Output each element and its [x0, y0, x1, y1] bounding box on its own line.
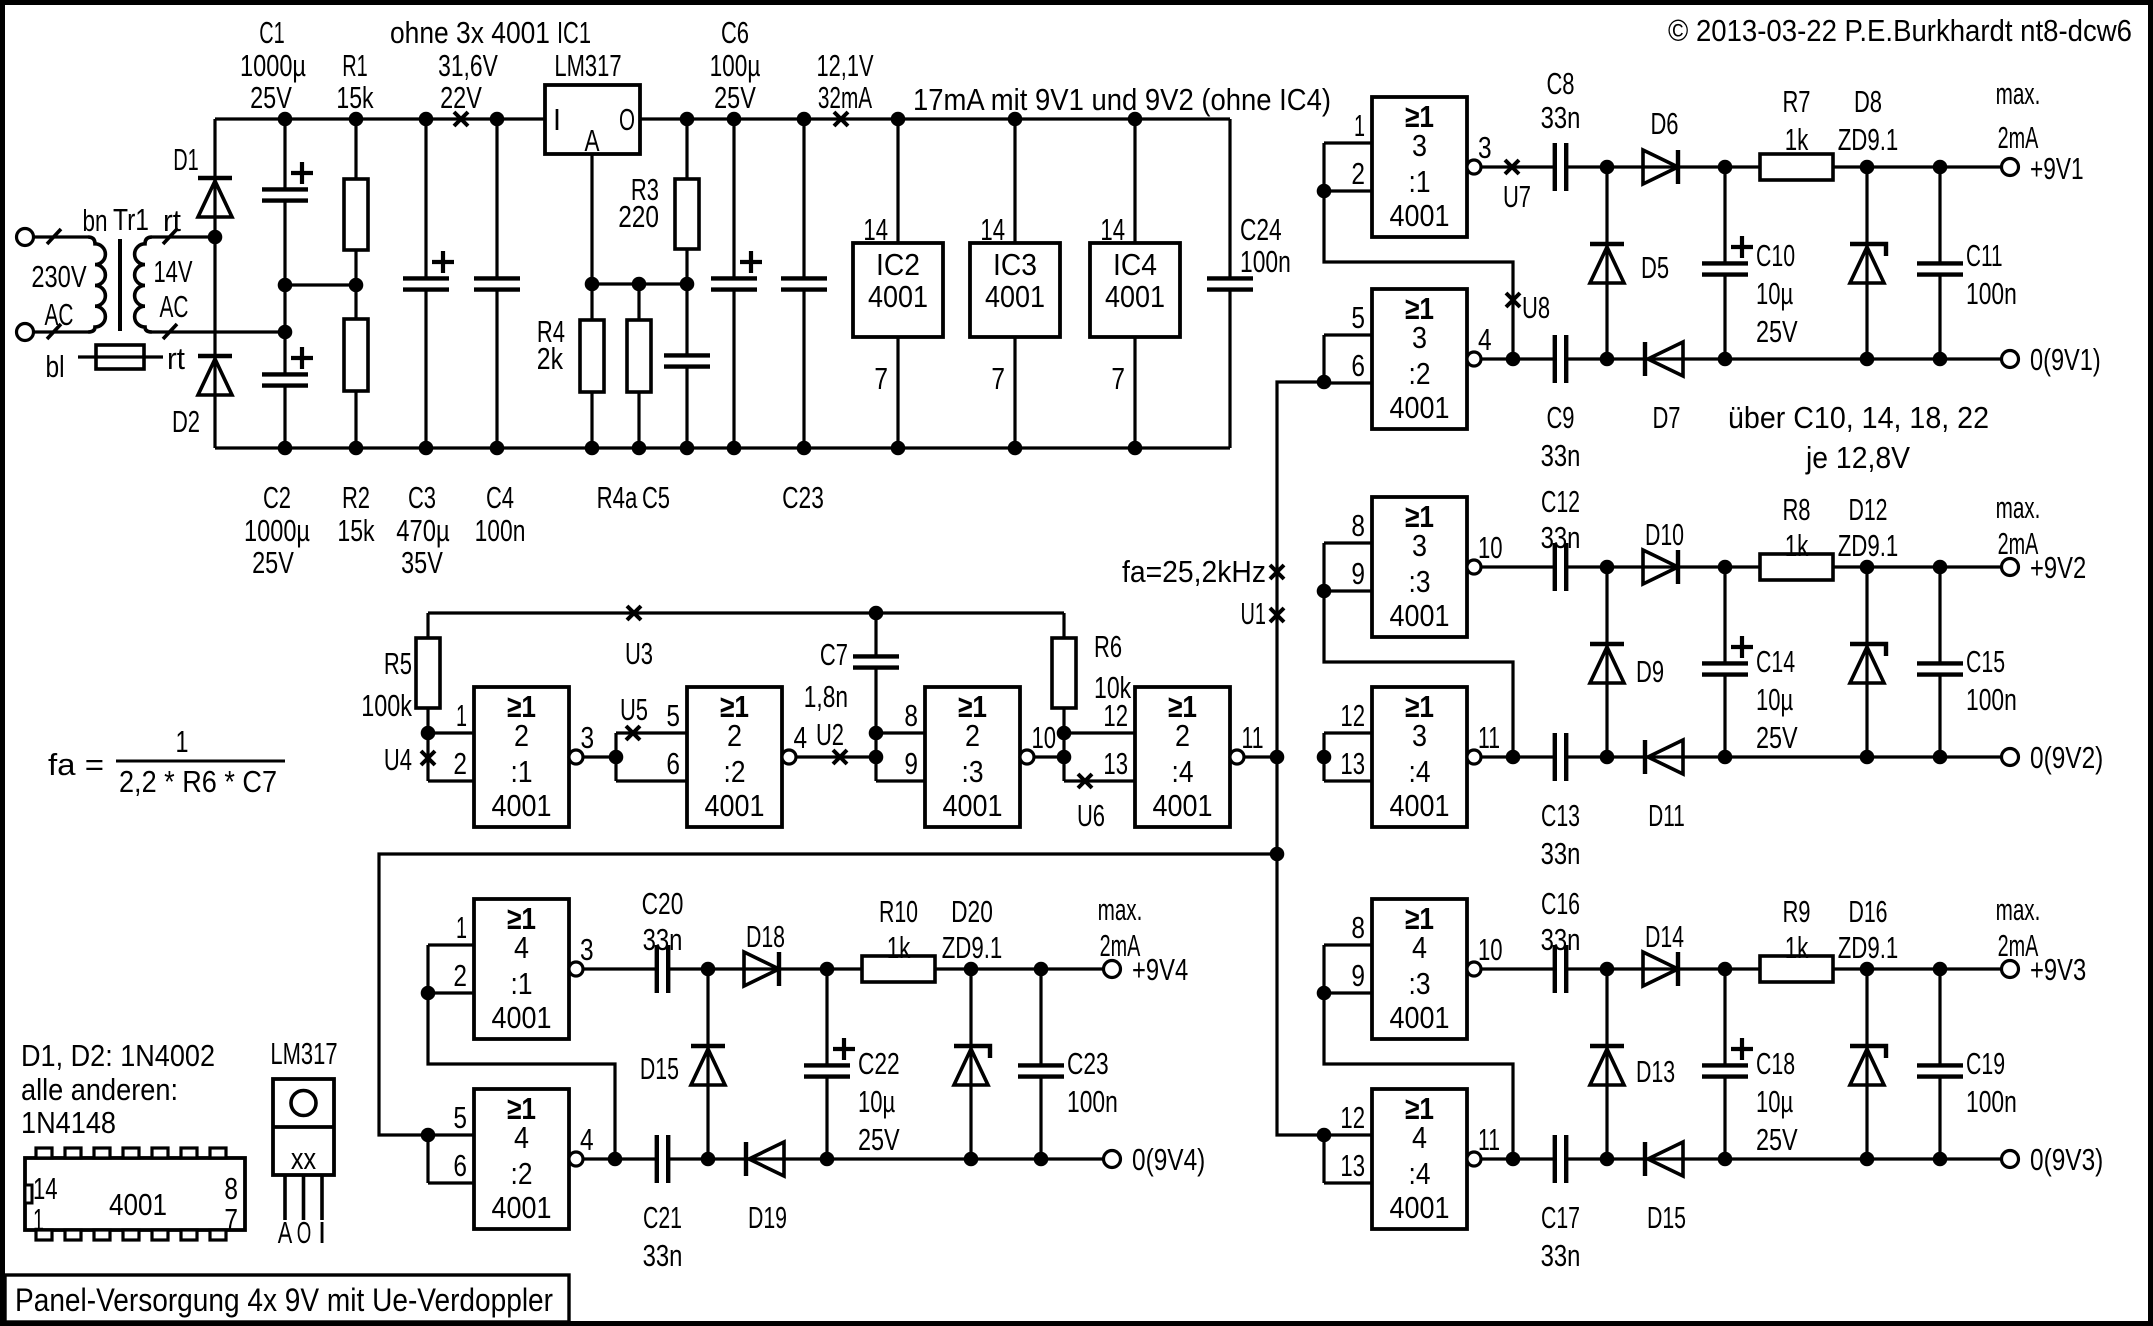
capacitor C20 pump top [655, 967, 658, 970]
IC power block IC4 [1133, 119, 1136, 243]
terminal 0 output [1104, 1151, 1121, 1168]
resistor R4 [590, 284, 593, 320]
svg-text:1k: 1k [1785, 122, 1809, 157]
svg-text:5: 5 [453, 1100, 467, 1135]
svg-text::4: :4 [1172, 754, 1194, 789]
wire 3:2 output rail [1481, 357, 1555, 360]
svg-text:2: 2 [727, 718, 742, 753]
gate U3:3 4001 [1372, 497, 1467, 637]
measurement point U5 [626, 726, 640, 740]
svg-text:+9V2: +9V2 [2030, 550, 2086, 585]
svg-text:32mA: 32mA [818, 80, 873, 115]
svg-text:10µ: 10µ [1756, 1084, 1793, 1119]
capacitor C23 output [1039, 969, 1042, 1065]
svg-text:1000µ: 1000µ [240, 48, 306, 83]
zener diode D12 [1865, 567, 1868, 757]
wire 4:2 output rail [583, 1157, 657, 1160]
svg-text:1: 1 [1354, 108, 1365, 143]
svg-text:U4: U4 [384, 742, 412, 777]
svg-text:max.: max. [1996, 892, 2041, 927]
svg-text:R6: R6 [1094, 629, 1122, 664]
measurement point 22V [454, 112, 468, 126]
svg-text:100n: 100n [1966, 276, 2017, 311]
svg-text:6: 6 [453, 1148, 467, 1183]
measurement point U7 [1505, 160, 1519, 174]
slash mark rt top [163, 229, 177, 244]
svg-text:4001: 4001 [1390, 198, 1450, 233]
zener diode D16 [1865, 969, 1868, 1159]
svg-text:25V: 25V [1756, 720, 1798, 755]
svg-text:4001: 4001 [1153, 788, 1213, 823]
svg-text:12: 12 [1340, 698, 1365, 733]
svg-text:D1, D2: 1N4002: D1, D2: 1N4002 [21, 1038, 215, 1073]
svg-text:xx: xx [291, 1141, 317, 1176]
node tap top [1317, 986, 1332, 1001]
diode D6 series top [1607, 165, 1725, 168]
svg-text:D9: D9 [1636, 654, 1664, 689]
terminal bn input [17, 229, 34, 246]
svg-text:C16: C16 [1541, 886, 1580, 921]
svg-text:1: 1 [456, 698, 467, 733]
node trunk top to 3:2 bracket [1317, 375, 1332, 390]
svg-text:AC: AC [45, 297, 74, 332]
measurement point U8 [1506, 293, 1520, 307]
svg-text:4001: 4001 [492, 788, 552, 823]
svg-text:bl: bl [45, 349, 64, 384]
svg-text:7: 7 [874, 361, 888, 396]
svg-text:5: 5 [1351, 300, 1365, 335]
svg-text:U2: U2 [816, 717, 844, 752]
svg-text:C7: C7 [820, 637, 848, 672]
gate 2:1 input bracket [426, 733, 429, 781]
node tap top [1317, 584, 1332, 599]
svg-text:D19: D19 [748, 1200, 787, 1235]
terminal 0 output [2002, 1151, 2019, 1168]
svg-text:4: 4 [514, 930, 529, 965]
node gate 2:3 input [869, 750, 884, 765]
svg-text:33n: 33n [1541, 1238, 1581, 1273]
svg-text:14: 14 [980, 212, 1005, 247]
svg-text:C13: C13 [1541, 798, 1580, 833]
node C7 top [869, 606, 884, 621]
svg-text:fa =: fa = [48, 747, 104, 782]
wire tap 4:3 inputs from 4:4 output [1324, 945, 1513, 1159]
svg-text:C8: C8 [1546, 66, 1574, 101]
node trunk to 3:4 bracket [1317, 750, 1332, 765]
svg-text:D12: D12 [1848, 492, 1887, 527]
gate 3:2 input bracket [1322, 335, 1325, 383]
svg-text:6: 6 [1351, 348, 1365, 383]
capacitor C7 [874, 613, 877, 656]
svg-text:100µ: 100µ [710, 48, 761, 83]
svg-text:I: I [553, 102, 561, 137]
gate 4:3 input bracket [1324, 943, 1372, 946]
svg-text:470µ: 470µ [396, 513, 449, 548]
svg-text:D6: D6 [1650, 106, 1678, 141]
svg-text::3: :3 [1409, 966, 1431, 1001]
svg-text:alle anderen:: alle anderen: [21, 1072, 178, 1107]
gate U2:4 4001 [1135, 687, 1230, 827]
svg-text:4001: 4001 [868, 279, 928, 314]
gate 3:1 input bracket [1324, 141, 1372, 144]
svg-text:IC4: IC4 [1113, 247, 1157, 282]
diode D11 series bottom [1607, 755, 1725, 758]
node tap bottom [1506, 750, 1521, 765]
node gate 2:4 input [1057, 750, 1072, 765]
svg-text:+9V3: +9V3 [2030, 952, 2086, 987]
svg-text:I: I [318, 1215, 327, 1250]
svg-text:14: 14 [863, 212, 888, 247]
node pump bottom [1600, 352, 1615, 367]
wire bottom rail out [1725, 357, 2002, 360]
svg-text::3: :3 [962, 754, 984, 789]
capacitor C13 pump bottom [1553, 755, 1556, 758]
svg-text:4001: 4001 [1390, 390, 1450, 425]
svg-text:9: 9 [1351, 556, 1365, 591]
svg-text::2: :2 [511, 1156, 533, 1191]
svg-text:14: 14 [33, 1171, 58, 1206]
wire adjust rail [592, 282, 687, 285]
svg-text:C14: C14 [1756, 644, 1795, 679]
svg-text:über C10, 14, 18, 22: über C10, 14, 18, 22 [1728, 400, 1989, 435]
gate U2:1 4001 [474, 687, 569, 827]
node zener bottom [1860, 352, 1875, 367]
node zener bottom [1860, 1152, 1875, 1167]
resistor R9 output [1725, 967, 1760, 970]
node R1-R2 junction [349, 278, 364, 293]
node out cap top [1034, 962, 1049, 977]
svg-text:7: 7 [224, 1202, 238, 1237]
measurement point U4 [421, 751, 435, 765]
svg-text:ohne 3x 4001: ohne 3x 4001 [390, 15, 550, 50]
wire LM317 adjust pin [590, 154, 593, 284]
svg-text:C6: C6 [721, 15, 749, 50]
terminal 0 output [2002, 749, 2019, 766]
svg-text:C21: C21 [643, 1200, 682, 1235]
svg-text:33n: 33n [1541, 520, 1581, 555]
node out cap bottom [1933, 1152, 1948, 1167]
zener diode D8 [1865, 167, 1868, 359]
svg-text:D2: D2 [172, 404, 200, 439]
svg-text:2mA: 2mA [1998, 120, 2039, 155]
diode D1 [213, 119, 216, 237]
LM317 legs [283, 1175, 287, 1220]
svg-text:C20: C20 [642, 886, 684, 921]
capacitor C19 output [1938, 969, 1941, 1065]
svg-text:D5: D5 [1641, 250, 1669, 285]
wire secondary top to node [152, 235, 215, 238]
svg-text:10: 10 [1032, 720, 1057, 755]
gate U4:3 4001 [1372, 899, 1467, 1039]
svg-text:C5: C5 [642, 480, 670, 515]
svg-text:Tr1: Tr1 [113, 202, 149, 237]
terminal bl input [17, 324, 34, 341]
svg-text:C11: C11 [1966, 238, 2003, 273]
svg-text:rt: rt [163, 203, 181, 238]
svg-text:4001: 4001 [1390, 1190, 1450, 1225]
node trunk osc out [1270, 750, 1285, 765]
svg-text:15k: 15k [336, 80, 374, 115]
node transformer top junction [208, 230, 223, 245]
svg-text:C15: C15 [1966, 644, 2005, 679]
svg-text:10µ: 10µ [1756, 682, 1793, 717]
diode D19 series bottom [708, 1157, 827, 1160]
svg-text:4001: 4001 [1390, 788, 1450, 823]
wire gate 2:3 out [1035, 755, 1065, 758]
svg-text:33n: 33n [1541, 438, 1581, 473]
svg-text:D10: D10 [1645, 517, 1684, 552]
svg-text:C9: C9 [1546, 400, 1574, 435]
svg-text:2: 2 [1351, 156, 1365, 191]
svg-text:ZD9.1: ZD9.1 [1838, 122, 1899, 157]
wire bottom rail out [827, 1157, 1104, 1160]
svg-text:33n: 33n [643, 1238, 683, 1273]
measurement point 12,1V [834, 112, 848, 126]
svg-text:33n: 33n [1541, 100, 1581, 135]
diode D15 series bottom [1607, 1157, 1725, 1160]
svg-text::1: :1 [1409, 164, 1431, 199]
svg-text:R10: R10 [879, 894, 918, 929]
node transformer return [278, 325, 293, 340]
gate 3:4 input bracket [1322, 733, 1325, 781]
node pump top [1600, 560, 1615, 575]
node zener top [1860, 560, 1875, 575]
svg-text:IC3: IC3 [993, 247, 1037, 282]
wire bottom rail out [1725, 1157, 2002, 1160]
node zener top [964, 962, 979, 977]
wire bl to primary [34, 330, 89, 333]
capacitor C4 [495, 119, 498, 278]
svg-text:C17: C17 [1541, 1200, 1580, 1235]
svg-text:4: 4 [1412, 930, 1427, 965]
svg-text:C10: C10 [1756, 238, 1795, 273]
diode D13 clamp [1605, 969, 1608, 1159]
capacitor C12 pump top [1553, 565, 1556, 568]
svg-text:8: 8 [224, 1171, 238, 1206]
gate U3:2 4001 [1372, 289, 1467, 429]
node tap top [1317, 184, 1332, 199]
terminal 0 output [2002, 351, 2019, 368]
capacitor C17 pump bottom [1553, 1157, 1556, 1160]
node pump bottom [701, 1152, 716, 1167]
wire secondary bottom to C-midpoint [152, 330, 285, 333]
svg-text:25V: 25V [858, 1122, 900, 1157]
node zener bottom [964, 1152, 979, 1167]
svg-text:230V: 230V [31, 259, 87, 294]
svg-text:D16: D16 [1848, 894, 1887, 929]
wire gate 2:1 out [584, 755, 617, 758]
node zener top [1860, 160, 1875, 175]
node out cap top [1933, 962, 1948, 977]
node trunk to 4:4 bracket [1317, 1128, 1332, 1143]
svg-text:max.: max. [1996, 76, 2041, 111]
svg-text:C2: C2 [263, 480, 291, 515]
diode D14 series top [1607, 967, 1725, 970]
svg-text:13: 13 [1340, 746, 1365, 781]
capacitor C24 [1228, 119, 1231, 278]
wire bottom supply rail [215, 446, 1230, 449]
svg-text:max.: max. [1098, 892, 1143, 927]
svg-text:4001: 4001 [1390, 598, 1450, 633]
capacitor C22 reservoir [825, 969, 828, 1065]
svg-text:LM317: LM317 [270, 1036, 337, 1071]
node pump bottom [1600, 1152, 1615, 1167]
node branch to 4:2 bracket [421, 1128, 436, 1143]
node rectified [1718, 962, 1733, 977]
gate 2:3 input bracket [874, 733, 877, 781]
svg-text:+9V1: +9V1 [2030, 151, 2084, 186]
svg-text:7: 7 [991, 361, 1005, 396]
svg-text:2: 2 [453, 746, 467, 781]
svg-text:ZD9.1: ZD9.1 [1838, 528, 1899, 563]
svg-text:U5: U5 [620, 692, 648, 727]
gate U4:4 4001 [1372, 1089, 1467, 1229]
gate U2:3 4001 [925, 687, 1020, 827]
svg-text:R7: R7 [1782, 84, 1810, 119]
gate U3:4 4001 [1372, 687, 1467, 827]
svg-text:12: 12 [1340, 1100, 1365, 1135]
svg-text:25V: 25V [714, 80, 756, 115]
zener diode D20 [969, 969, 972, 1159]
svg-text:1k: 1k [1785, 528, 1809, 563]
capacitor C23 main [802, 119, 805, 278]
svg-text:2: 2 [965, 718, 980, 753]
svg-text:C23: C23 [1067, 1046, 1109, 1081]
svg-text:220: 220 [618, 199, 659, 234]
svg-text:1,8n: 1,8n [804, 679, 848, 714]
svg-text:3: 3 [581, 720, 595, 755]
svg-text:A: A [585, 123, 600, 158]
transformer Tr1 primary winding [88, 237, 105, 332]
wire 4:4 output rail [1481, 1157, 1555, 1160]
svg-text:O: O [619, 102, 635, 137]
node pump top [1600, 962, 1615, 977]
svg-text:2: 2 [514, 718, 529, 753]
fuse [78, 355, 163, 358]
svg-text:4001: 4001 [492, 1190, 552, 1225]
svg-text:AC: AC [160, 289, 189, 324]
svg-text:IC2: IC2 [876, 247, 920, 282]
wire 3:3 output to pump cap [1481, 565, 1555, 568]
wire bn to primary [34, 235, 89, 238]
svg-text:100n: 100n [1966, 1084, 2017, 1119]
svg-text:C24: C24 [1240, 212, 1282, 247]
measurement point U3 [627, 606, 641, 620]
terminal + output [1104, 961, 1121, 978]
capacitor C6 [732, 119, 735, 278]
svg-text:100n: 100n [475, 513, 526, 548]
capacitor C2 [283, 332, 286, 374]
svg-text:4001: 4001 [109, 1187, 167, 1222]
svg-text:D13: D13 [1636, 1054, 1675, 1089]
DIP-14 package 4001 [25, 1158, 245, 1230]
svg-text:4: 4 [1478, 322, 1492, 357]
node pump top [701, 962, 716, 977]
svg-text:U1: U1 [1241, 596, 1267, 631]
wire midpoint to R divider [285, 283, 356, 286]
svg-text:2,2 * R6 * C7: 2,2 * R6 * C7 [119, 764, 277, 799]
node R5 bottom [421, 726, 436, 741]
diode D10 series top [1607, 565, 1725, 568]
wire oscillator trunk [1277, 382, 1324, 1135]
diode D18 series top [708, 967, 827, 970]
svg-text:C18: C18 [1756, 1046, 1795, 1081]
resistor R7 output [1725, 165, 1760, 168]
svg-text:2: 2 [453, 958, 467, 993]
capacitor C10 reservoir [1723, 167, 1726, 263]
resistor R8 output [1725, 565, 1760, 568]
capacitor C9 pump bottom [1553, 357, 1556, 360]
svg-text:11: 11 [1478, 1122, 1500, 1157]
svg-text:25V: 25V [1756, 1122, 1798, 1157]
svg-text:fa=25,2kHz: fa=25,2kHz [1122, 554, 1266, 589]
node rectified [1718, 560, 1733, 575]
svg-text:1N4148: 1N4148 [21, 1105, 116, 1140]
wire 3:4 output rail [1481, 755, 1555, 758]
wire branch to 9V4 section [379, 854, 1277, 1135]
regulator IC1 LM317 [545, 85, 640, 154]
transformer Tr1 secondary winding [135, 237, 152, 332]
IC power block IC3 [1013, 119, 1016, 243]
svg-text:8: 8 [904, 698, 918, 733]
svg-text:1k: 1k [1785, 930, 1809, 965]
gate 2:4 input bracket [1062, 733, 1065, 781]
diode D7 series bottom [1607, 357, 1725, 360]
node gate 2:2 input [609, 750, 624, 765]
measurement point fa=25,2kHz [1270, 565, 1284, 579]
node tap bottom [1506, 352, 1521, 367]
diode D5 clamp [1605, 167, 1608, 359]
svg-text:IC1: IC1 [557, 15, 591, 50]
diode D15 clamp [706, 969, 709, 1159]
svg-text:R9: R9 [1782, 894, 1810, 929]
resistor R10 output [827, 967, 862, 970]
svg-text:0(9V3): 0(9V3) [2030, 1142, 2103, 1177]
svg-text:8: 8 [1351, 508, 1365, 543]
gate 4:2 input bracket [426, 1135, 429, 1183]
svg-text:17mA mit 9V1 und 9V2 (ohne IC4: 17mA mit 9V1 und 9V2 (ohne IC4) [913, 82, 1331, 117]
node C1-C2 midpoint [278, 278, 293, 293]
svg-text:max.: max. [1996, 490, 2041, 525]
gate U2:2 4001 [687, 687, 782, 827]
svg-text:R5: R5 [384, 646, 412, 681]
diode D9 clamp [1605, 567, 1608, 757]
svg-text:rt: rt [167, 341, 185, 376]
node out cap top [1933, 160, 1948, 175]
wire tap 3:3 inputs from 3:4 output [1324, 543, 1513, 757]
svg-text:je 12,8V: je 12,8V [1805, 440, 1910, 475]
capacitor C15 output [1938, 567, 1941, 663]
resistor R5 [426, 613, 429, 638]
node tap bottom [608, 1152, 623, 1167]
svg-text:9: 9 [904, 746, 918, 781]
svg-text:U7: U7 [1503, 179, 1531, 214]
gate 4:4 input bracket [1322, 1135, 1325, 1183]
node tap top [421, 986, 436, 1001]
svg-text:ZD9.1: ZD9.1 [942, 930, 1003, 965]
svg-text:11: 11 [1478, 720, 1500, 755]
svg-text:33n: 33n [1541, 922, 1581, 957]
svg-text:9: 9 [1351, 958, 1365, 993]
svg-text:R4a: R4a [597, 480, 638, 515]
wire 4:3 output to pump cap [1481, 967, 1555, 970]
svg-text:C23: C23 [782, 480, 824, 515]
svg-text:D8: D8 [1854, 84, 1882, 119]
node trunk branch 9V4 [1270, 847, 1285, 862]
svg-text:C3: C3 [408, 480, 436, 515]
node out cap bottom [1034, 1152, 1049, 1167]
svg-text:D18: D18 [746, 919, 785, 954]
